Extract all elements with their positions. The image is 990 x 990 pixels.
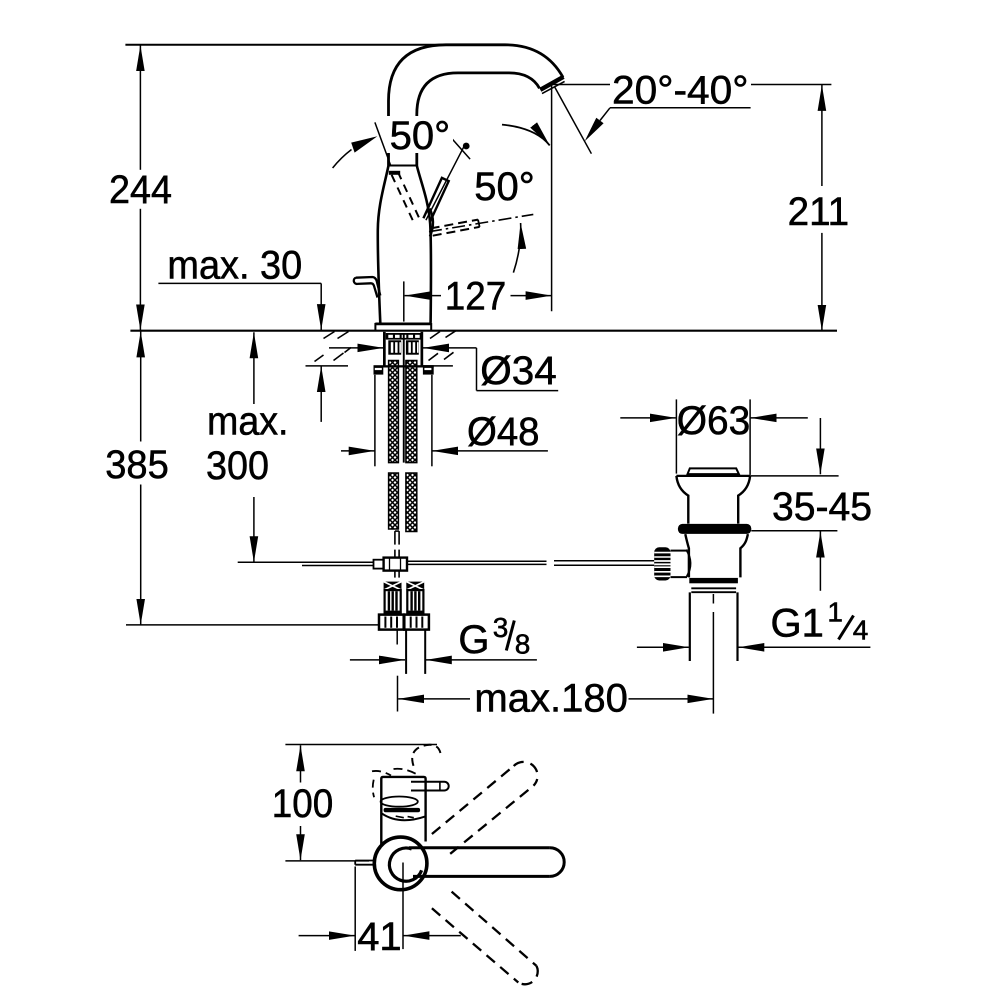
topview 41 dim left arrow <box>299 935 355 937</box>
mounting nut right wing <box>423 366 434 375</box>
max30 down arrow <box>320 283 322 330</box>
shank thread band <box>386 333 421 340</box>
svg-text:41: 41 <box>357 915 402 959</box>
20-40 leader underline <box>610 107 751 109</box>
svg-text:211: 211 <box>788 190 850 234</box>
50deg upper leader arrowhead <box>351 136 377 152</box>
hose lower left <box>389 473 399 529</box>
pop-up junction block <box>384 558 407 571</box>
handle ghost outline dashed bottom <box>433 227 480 236</box>
max300 dim line lower <box>253 497 255 562</box>
spout outlet face <box>540 77 563 90</box>
G38 connector left body <box>385 590 401 614</box>
svg-text:50°: 50° <box>390 114 451 158</box>
pop-up rod right segment 2 <box>554 560 654 562</box>
supply pipe <box>405 630 407 674</box>
topview 41 dim right arrow <box>403 935 460 937</box>
counter surface line <box>130 330 837 332</box>
svg-text:max.: max. <box>207 399 289 443</box>
svg-text:50°: 50° <box>474 165 535 209</box>
max180 dim right arrow <box>629 698 714 700</box>
topview dashed lever lower <box>452 892 537 966</box>
drain centerline dashed <box>712 594 714 604</box>
handle ghost cap <box>478 220 480 227</box>
G38 nut right <box>404 615 429 630</box>
O63 extension right <box>749 399 751 475</box>
50deg upper label bg <box>387 116 453 153</box>
drain O-ring <box>678 524 751 534</box>
drain flange top <box>676 475 750 477</box>
svg-text:244: 244 <box>109 168 172 212</box>
topview lever rod <box>409 846 550 849</box>
handle pivot bulge <box>430 209 433 237</box>
drain knob link <box>671 550 687 552</box>
topview aerator stub <box>355 860 374 862</box>
max30 up arrow <box>320 366 322 422</box>
topview 41 extension right <box>402 863 404 950</box>
svg-text:Ø48: Ø48 <box>467 410 540 454</box>
svg-text:127: 127 <box>445 275 507 319</box>
O63 dim right arrow <box>751 417 808 419</box>
topview hub outer circle <box>374 837 427 890</box>
spout inner profile <box>417 73 540 166</box>
385 bottom extension line <box>126 624 379 626</box>
svg-text:385: 385 <box>105 443 169 487</box>
20-40 leader arrowhead <box>585 118 604 142</box>
topview mini handle rod <box>411 782 449 791</box>
385 dim line upper <box>140 331 142 441</box>
max180 left extension <box>397 676 399 712</box>
topview 100 dim lower <box>300 826 302 860</box>
handle hidden stem dashed 2 <box>398 172 419 218</box>
mounting nut left wing <box>374 366 384 375</box>
spout outer profile <box>389 45 564 166</box>
spout top extension line <box>125 44 442 46</box>
handle open axis dash-dot <box>429 214 533 231</box>
drain tailpipe <box>689 592 691 661</box>
handle axis line <box>426 145 465 221</box>
base plate top line <box>375 322 431 325</box>
body outline left <box>378 166 389 323</box>
topview 100 dim upper <box>300 745 302 782</box>
127 dim right arrow <box>511 295 552 297</box>
deck hatching <box>315 331 456 362</box>
topview spout swing dash arc 2 <box>394 769 417 775</box>
G38 connector right body <box>407 590 423 614</box>
drain plug <box>688 468 739 474</box>
topview hub inner arc <box>389 848 421 881</box>
drain ring band 1 <box>689 578 738 583</box>
svg-text:4: 4 <box>853 615 869 646</box>
aerator tick <box>389 171 400 175</box>
svg-text:Ø34: Ø34 <box>480 349 557 393</box>
211 dim line lower <box>821 233 823 331</box>
drain body left <box>685 534 689 577</box>
side lever (main view) <box>354 277 381 298</box>
O48 dim right arrow <box>432 450 548 452</box>
35-45 top arrow <box>819 418 821 474</box>
max300 bottom extension / pop-up rod top <box>238 561 374 563</box>
spout swivel arc with arrow <box>502 125 550 146</box>
drain knob <box>654 547 670 580</box>
base plate sides <box>374 323 376 331</box>
G38 dim right arrow <box>426 659 537 661</box>
G114 dim right arrow <box>738 646 870 648</box>
127 right extension line <box>551 85 553 311</box>
svg-text:20°-40°: 20°-40° <box>612 69 749 113</box>
outlet flow axis line <box>555 87 592 153</box>
O34 dim left arrow <box>329 347 383 349</box>
35-45 bottom arrow <box>819 532 821 591</box>
pop-up stem upper <box>394 531 396 545</box>
svg-text:G: G <box>458 618 489 662</box>
topview dashed lever upper <box>432 766 514 834</box>
topview spout swing dash arc 1 <box>372 771 391 776</box>
outlet level line left segment <box>553 84 610 86</box>
drain ball arc <box>686 550 690 577</box>
topview spout tip dashed <box>412 745 441 766</box>
svg-text:max. 30: max. 30 <box>167 244 302 288</box>
O48 dim left arrow <box>341 450 375 452</box>
O34 leader step vertical <box>476 348 478 391</box>
axis end tick <box>452 139 470 160</box>
mounting nut band <box>374 365 434 367</box>
G38 connector left top <box>384 582 402 591</box>
svg-text:max.180: max.180 <box>474 677 628 721</box>
G38 dim left arrow <box>350 659 405 661</box>
O63 dim left arrow <box>620 417 676 419</box>
svg-text:Ø63: Ø63 <box>677 399 751 443</box>
hose upper right <box>406 361 417 463</box>
spout swivel joint line <box>389 165 417 167</box>
spout outlet lip <box>542 81 565 93</box>
O48 extension line left <box>374 375 376 467</box>
127 dim left arrow <box>405 295 441 297</box>
244 dim line upper <box>139 45 141 170</box>
svg-text:300: 300 <box>206 444 269 488</box>
handle ghost outline dashed top <box>431 220 478 229</box>
max300 dim line upper <box>253 332 255 404</box>
50deg lower arc with arrow <box>513 223 520 273</box>
topview 100 bottom extension <box>285 860 369 862</box>
127 centerline tick <box>403 281 405 321</box>
O63 extension left <box>675 399 677 473</box>
drain flange side right <box>738 476 750 524</box>
drain flange side left <box>676 476 688 524</box>
pop-up stem lower <box>394 571 396 578</box>
shank wall left <box>383 332 386 366</box>
svg-text:1: 1 <box>827 596 843 627</box>
50deg upper leader curve <box>333 150 352 169</box>
topview 41 extension left <box>354 867 356 951</box>
svg-text:35-45: 35-45 <box>772 485 872 529</box>
pop-up rod stub below nut <box>396 630 398 645</box>
shank wall right <box>421 332 424 366</box>
handle hidden stem dashed <box>392 175 413 221</box>
riser crossing line <box>375 122 391 165</box>
hose fitting left <box>388 340 401 354</box>
hose fitting right <box>406 340 419 354</box>
svg-text:G1: G1 <box>771 602 824 646</box>
211 dim line upper <box>821 85 823 186</box>
35-45 top extension <box>750 475 839 477</box>
handle lever rod <box>423 178 448 222</box>
svg-text:8: 8 <box>515 629 531 660</box>
drain body right <box>740 534 748 577</box>
outlet level line right segment <box>751 84 831 86</box>
svg-text:3: 3 <box>493 612 509 643</box>
topview dome dashes <box>396 816 404 818</box>
svg-text:100: 100 <box>272 782 334 826</box>
G38 nut left <box>379 615 404 630</box>
O34 leader underline <box>477 390 559 392</box>
pop-up junction left cap <box>374 560 384 569</box>
35-45 bottom extension <box>751 530 837 532</box>
topview 100 top extension <box>285 744 437 746</box>
hose lower right <box>406 473 417 532</box>
pop-up rod bottom edge <box>302 565 374 567</box>
deck bottom line left <box>306 365 349 367</box>
deck bottom line right <box>423 365 453 367</box>
topview spout tube ellipse <box>381 797 418 807</box>
body outline right <box>417 166 431 323</box>
O48 extension line right <box>431 375 433 467</box>
O34 dim right arrow <box>423 347 477 349</box>
20-40 leader diagonal <box>600 108 610 121</box>
axis end marker dot <box>463 143 470 150</box>
hose upper left <box>389 361 399 463</box>
G114 dim left arrow <box>637 646 689 648</box>
G38 connector right top <box>406 582 424 591</box>
max180 dim left arrow <box>398 698 470 700</box>
max30 underline <box>158 282 321 284</box>
244 dim line lower <box>139 209 141 331</box>
topview joint band <box>384 808 421 812</box>
pop-up rod in shank <box>403 334 405 463</box>
385 dim line lower <box>140 485 142 625</box>
topview body <box>381 777 425 845</box>
topview left curvelet dashed <box>373 780 374 798</box>
drain ring band 2 <box>691 587 736 589</box>
pop-up rod right segment 1 <box>407 560 547 562</box>
topview dome curve <box>381 813 425 820</box>
